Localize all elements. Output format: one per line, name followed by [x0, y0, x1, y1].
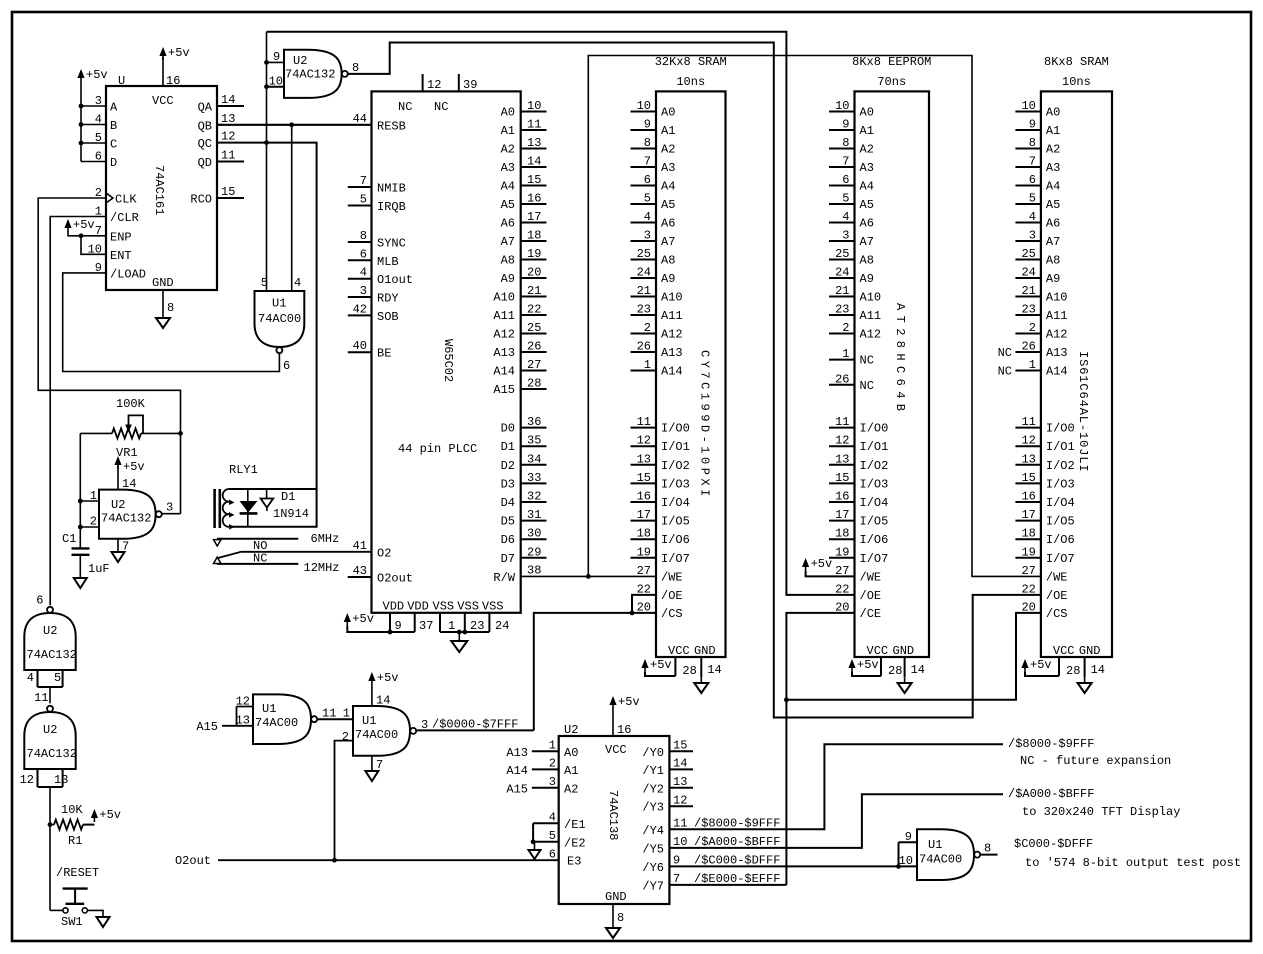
- wire A15 into inverter pins 12 13: [196, 707, 253, 735]
- svg-text:21: 21: [1021, 284, 1035, 298]
- svg-text:GND: GND: [1079, 644, 1101, 658]
- svg-text:VSS: VSS: [457, 600, 479, 614]
- svg-text:11: 11: [221, 149, 235, 163]
- svg-text:C: C: [110, 138, 117, 152]
- wire U1 pin 4 riser from QB: [291, 125, 293, 291]
- svg-text:A15: A15: [493, 383, 515, 397]
- svg-text:6: 6: [283, 359, 290, 373]
- svg-text:A3: A3: [501, 161, 515, 175]
- svg-text:18: 18: [637, 527, 651, 541]
- svg-text:+5v: +5v: [811, 557, 833, 571]
- svg-text:23: 23: [835, 303, 849, 317]
- svg-text:B: B: [110, 119, 117, 133]
- svg-text:/CLR: /CLR: [110, 211, 139, 225]
- ground at decoder GND pin 8: [606, 904, 624, 938]
- svg-text:I/O3: I/O3: [1046, 477, 1075, 491]
- svg-text:10: 10: [1021, 99, 1035, 113]
- wire inverter output 11 to gate pin 1: [317, 707, 353, 721]
- ground at CPU VSS pins 1 23 24: [440, 613, 509, 652]
- svg-text:U1: U1: [272, 297, 286, 311]
- svg-text:R1: R1: [68, 834, 82, 848]
- svg-text:CLK: CLK: [115, 193, 137, 207]
- svg-text:GND: GND: [152, 276, 174, 290]
- svg-text:1uF: 1uF: [88, 562, 110, 576]
- svg-text:I/O0: I/O0: [1046, 422, 1075, 436]
- svg-text:19: 19: [637, 545, 651, 559]
- svg-text:D5: D5: [501, 515, 515, 529]
- svg-text:/OE: /OE: [661, 589, 683, 603]
- svg-text:A2: A2: [564, 782, 578, 796]
- svg-text:5: 5: [842, 192, 849, 206]
- node oscillator output to pot and CLK: [178, 431, 183, 436]
- svg-text:/$E000-$EFFF: /$E000-$EFFF: [694, 872, 780, 886]
- svg-text:5: 5: [1029, 192, 1036, 206]
- svg-text:/$A000-$BFFF: /$A000-$BFFF: [694, 835, 780, 849]
- svg-text:A2: A2: [1046, 143, 1060, 157]
- svg-text:SYNC: SYNC: [377, 237, 406, 251]
- svg-text:+5v: +5v: [168, 46, 190, 60]
- svg-text:12: 12: [637, 434, 651, 448]
- svg-text:R/W: R/W: [493, 571, 515, 585]
- svg-text:VDD: VDD: [383, 600, 405, 614]
- svg-text:A14: A14: [506, 764, 528, 778]
- svg-text:A: A: [110, 101, 118, 115]
- svg-text:A4: A4: [501, 180, 515, 194]
- svg-text:A9: A9: [860, 272, 874, 286]
- svg-text:16: 16: [835, 490, 849, 504]
- svg-text:+5v: +5v: [352, 612, 374, 626]
- svg-text:1: 1: [448, 619, 455, 633]
- svg-text:A14: A14: [1046, 365, 1068, 379]
- svg-text:D4: D4: [501, 496, 515, 510]
- svg-text:QC: QC: [198, 137, 212, 151]
- svg-text:3: 3: [166, 501, 173, 515]
- wire CPU left pin stubs: [348, 187, 372, 577]
- svg-text:24: 24: [495, 619, 509, 633]
- svg-text:A12: A12: [1046, 328, 1068, 342]
- svg-text:NC: NC: [398, 100, 412, 114]
- svg-text:A10: A10: [1046, 291, 1068, 305]
- svg-text:38: 38: [527, 564, 541, 578]
- svg-text:3: 3: [842, 229, 849, 243]
- svg-text:A7: A7: [1046, 235, 1060, 249]
- svg-text:I/O1: I/O1: [661, 440, 690, 454]
- svg-text:6: 6: [842, 173, 849, 187]
- svg-text:A11: A11: [493, 309, 515, 323]
- svg-text:D7: D7: [501, 552, 515, 566]
- svg-text:9: 9: [1029, 118, 1036, 132]
- wire QC net riser to top rail and U1 pin 5: [266, 32, 268, 291]
- svg-text:/Y7: /Y7: [642, 879, 664, 893]
- svg-text:9: 9: [395, 619, 402, 633]
- wire R/W branch over top to SRAM2 /WE pin 27: [588, 56, 1041, 577]
- power +5v at oscillator gate pin 14: [114, 456, 144, 491]
- switch SW1 pushbutton: [50, 889, 88, 929]
- svg-text:24: 24: [637, 266, 651, 280]
- svg-text:1: 1: [343, 707, 350, 721]
- power +5v to CPU VDD pins 9 37: [344, 612, 434, 634]
- wire /Y7 net branch to SRAM2 /CS pin 20: [786, 613, 1041, 700]
- svg-text:18: 18: [835, 527, 849, 541]
- svg-text:14: 14: [707, 663, 721, 677]
- svg-text:9: 9: [842, 118, 849, 132]
- svg-text:+5v: +5v: [618, 695, 640, 709]
- eeprom U 8Kx8 EEPROM AT28HC64B: [829, 55, 931, 693]
- svg-text:12MHz: 12MHz: [304, 561, 340, 575]
- svg-text:/Y3: /Y3: [642, 801, 664, 815]
- svg-text:QD: QD: [198, 156, 212, 170]
- svg-text:9: 9: [644, 118, 651, 132]
- svg-text:8Kx8 SRAM: 8Kx8 SRAM: [1044, 55, 1109, 69]
- svg-text:A6: A6: [1046, 217, 1060, 231]
- nand gate U2 74AC132 top: [269, 50, 348, 98]
- svg-text:/Y6: /Y6: [642, 861, 664, 875]
- svg-text:8: 8: [842, 136, 849, 150]
- svg-text:/E2: /E2: [564, 836, 586, 850]
- svg-text:4: 4: [27, 671, 34, 685]
- svg-text:19: 19: [1021, 545, 1035, 559]
- svg-text:10: 10: [637, 99, 651, 113]
- svg-text:IRQB: IRQB: [377, 200, 406, 214]
- svg-text:23: 23: [1021, 303, 1035, 317]
- svg-text:7: 7: [360, 174, 367, 188]
- svg-text:12: 12: [835, 434, 849, 448]
- svg-text:A9: A9: [1046, 272, 1060, 286]
- svg-text:/CS: /CS: [661, 607, 683, 621]
- svg-text:ENP: ENP: [110, 230, 132, 244]
- svg-text:VCC: VCC: [152, 94, 174, 108]
- svg-text:1N914: 1N914: [273, 507, 309, 521]
- svg-text:/$8000-$9FFF: /$8000-$9FFF: [1008, 737, 1094, 751]
- svg-text:U1: U1: [262, 702, 276, 716]
- svg-text:15: 15: [1021, 471, 1035, 485]
- svg-text:A8: A8: [860, 254, 874, 268]
- svg-text:13: 13: [835, 452, 849, 466]
- svg-text:12: 12: [221, 130, 235, 144]
- svg-text:74AC00: 74AC00: [355, 728, 398, 742]
- wire oscillator feedback node to gate inputs 1 2: [78, 433, 99, 548]
- svg-text:A4: A4: [1046, 180, 1060, 194]
- svg-text:74AC00: 74AC00: [919, 853, 962, 867]
- svg-text:A7: A7: [860, 235, 874, 249]
- svg-text:70ns: 70ns: [877, 75, 906, 89]
- svg-text:+5v: +5v: [857, 658, 879, 672]
- svg-text:A13: A13: [1046, 346, 1068, 360]
- svg-text:D: D: [110, 156, 117, 170]
- svg-text:37: 37: [419, 619, 433, 633]
- svg-text:3: 3: [421, 718, 428, 732]
- wire QC pin 12 to relay coil: [217, 140, 317, 489]
- svg-text:A3: A3: [661, 161, 675, 175]
- svg-text:I/O0: I/O0: [661, 422, 690, 436]
- svg-text:23: 23: [637, 303, 651, 317]
- svg-text:A1: A1: [1046, 124, 1060, 138]
- svg-text:I/O4: I/O4: [1046, 496, 1075, 510]
- svg-text:1: 1: [842, 347, 849, 361]
- net label $C000-$DFFF to '574 8-bit output test post: [1014, 837, 1241, 870]
- svg-text:25: 25: [637, 247, 651, 261]
- svg-text:A7: A7: [501, 235, 515, 249]
- svg-text:A1: A1: [564, 764, 578, 778]
- svg-text:74AC161: 74AC161: [152, 165, 166, 215]
- svg-text:A0: A0: [501, 106, 515, 120]
- svg-text:4: 4: [1029, 210, 1036, 224]
- svg-text:6MHz: 6MHz: [311, 532, 340, 546]
- svg-text:A15: A15: [506, 782, 528, 796]
- svg-text:I/O2: I/O2: [1046, 459, 1075, 473]
- svg-text:/Y4: /Y4: [642, 824, 664, 838]
- svg-text:A13: A13: [493, 346, 515, 360]
- wire decoder /Y5 to net label /$A000-$BFFF: [669, 794, 1003, 849]
- power +5v to EEPROM /WE pin 27: [802, 557, 855, 576]
- relay common armature to CPU O2 pin 41: [216, 552, 372, 559]
- svg-text:BE: BE: [377, 347, 391, 361]
- wire decoder /Y4 to net label /$8000-$9FFF: [669, 744, 1003, 830]
- svg-text:A13: A13: [506, 746, 528, 760]
- svg-text:25: 25: [835, 247, 849, 261]
- svg-text:A13: A13: [661, 346, 683, 360]
- svg-text:U: U: [118, 74, 125, 88]
- svg-text:+5v: +5v: [99, 808, 121, 822]
- svg-text:1: 1: [644, 358, 651, 372]
- svg-text:26: 26: [637, 340, 651, 354]
- nand gate U2 74AC132 oscillator: [90, 489, 173, 539]
- net label /$8000-$9FFF NC - future expansion: [1008, 737, 1171, 768]
- svg-text:D6: D6: [501, 533, 515, 547]
- svg-text:A5: A5: [1046, 198, 1060, 212]
- svg-text:I/O5: I/O5: [1046, 515, 1075, 529]
- svg-text:8: 8: [644, 136, 651, 150]
- svg-text:I/O6: I/O6: [860, 533, 889, 547]
- svg-text:/CS: /CS: [1046, 607, 1068, 621]
- svg-text:U1: U1: [928, 838, 942, 852]
- svg-text:U2: U2: [43, 624, 57, 638]
- power +5v at resistor R1: [91, 808, 121, 822]
- svg-text:22: 22: [835, 582, 849, 596]
- svg-text:I/O2: I/O2: [661, 459, 690, 473]
- wire CPU R/W pin 38 to SRAM1 /WE pin 27: [521, 574, 656, 579]
- wire QA pin 14 stub: [217, 105, 244, 107]
- svg-text:A5: A5: [661, 198, 675, 212]
- nand gate U1 74AC00 A15 inverter: [236, 694, 318, 744]
- svg-text:A1: A1: [501, 124, 515, 138]
- svg-text:RDY: RDY: [377, 292, 399, 306]
- svg-text:19: 19: [835, 545, 849, 559]
- svg-text:16: 16: [166, 74, 180, 88]
- svg-text:18: 18: [1021, 527, 1035, 541]
- svg-text:/E1: /E1: [564, 818, 586, 832]
- svg-text:7: 7: [376, 758, 383, 772]
- wire decoder /Y6 /$C000-$DFFF to gate U1 inputs: [669, 854, 917, 869]
- svg-text:NC - future expansion: NC - future expansion: [1020, 754, 1171, 768]
- svg-text:6: 6: [36, 594, 43, 608]
- svg-text:74AC132: 74AC132: [285, 68, 335, 82]
- svg-text:SW1: SW1: [61, 915, 83, 929]
- svg-text:15: 15: [637, 471, 651, 485]
- svg-text:D3: D3: [501, 477, 515, 491]
- svg-text:11: 11: [322, 707, 336, 721]
- svg-text:NC: NC: [860, 354, 874, 368]
- svg-text:7: 7: [644, 155, 651, 169]
- svg-text:to '574 8-bit output test post: to '574 8-bit output test post: [1025, 856, 1241, 870]
- svg-text:A4: A4: [661, 180, 675, 194]
- net label /$A000-$BFFF to 320x240 TFT Display: [1008, 787, 1180, 819]
- svg-text:42: 42: [353, 302, 367, 316]
- svg-text:U2: U2: [293, 54, 307, 68]
- wire U2 top gate input pins 9 10 tie to QC net: [264, 60, 284, 89]
- svg-text:+5v: +5v: [123, 460, 145, 474]
- wire QB pin 13 to CPU RESB pin 44: [217, 122, 372, 127]
- nand gate U1 74AC00 load decoder: [255, 276, 305, 373]
- svg-text:I/O2: I/O2: [860, 459, 889, 473]
- svg-text:14: 14: [376, 694, 390, 708]
- svg-text:44 pin PLCC: 44 pin PLCC: [398, 442, 477, 456]
- svg-text:NMIB: NMIB: [377, 182, 406, 196]
- svg-text:/$0000-$7FFF: /$0000-$7FFF: [432, 718, 518, 732]
- svg-text:/OE: /OE: [860, 589, 882, 603]
- diode D1 1N914 across relay coil: [240, 489, 309, 527]
- svg-text:24: 24: [835, 266, 849, 280]
- svg-text:A8: A8: [1046, 254, 1060, 268]
- svg-text:D1: D1: [281, 490, 295, 504]
- relay RLY1 coil: [215, 463, 317, 530]
- svg-text:6: 6: [644, 173, 651, 187]
- svg-text:VCC: VCC: [867, 644, 889, 658]
- svg-text:13: 13: [637, 452, 651, 466]
- svg-text:7: 7: [1029, 155, 1036, 169]
- svg-text:D0: D0: [501, 422, 515, 436]
- wire A15 to decoder A2 pin 3: [506, 782, 558, 796]
- svg-text:28: 28: [682, 664, 696, 678]
- svg-text:I/O7: I/O7: [661, 552, 690, 566]
- svg-text:U1: U1: [362, 714, 376, 728]
- power +5v to counter inputs A B C D: [77, 68, 107, 162]
- svg-text:RCO: RCO: [190, 193, 212, 207]
- svg-text:/Y5: /Y5: [642, 842, 664, 856]
- svg-text:3: 3: [1029, 229, 1036, 243]
- svg-text:A9: A9: [501, 272, 515, 286]
- wire QD pin 11 stub: [217, 161, 244, 163]
- svg-text:2: 2: [342, 730, 349, 744]
- svg-text:4: 4: [294, 276, 301, 290]
- wire U1 output pin 8 $C000-$DFFF: [981, 842, 998, 856]
- relay NC contact to 12MHz: [214, 552, 299, 566]
- power +5v to counter ENP ENT pins 7 10: [64, 218, 106, 254]
- nand gate U1 74AC00 RAM select: [342, 706, 416, 756]
- svg-text:/WE: /WE: [661, 570, 683, 584]
- svg-text:15: 15: [835, 471, 849, 485]
- svg-text:74AC138: 74AC138: [606, 790, 620, 840]
- svg-text:U2: U2: [43, 723, 57, 737]
- svg-text:6: 6: [360, 247, 367, 261]
- svg-text:25: 25: [1021, 247, 1035, 261]
- svg-text:A9: A9: [661, 272, 675, 286]
- svg-text:A12: A12: [661, 328, 683, 342]
- svg-text:2: 2: [1029, 321, 1036, 335]
- wire CPU address pin stubs A0-A15: [521, 112, 547, 390]
- svg-text:27: 27: [1021, 564, 1035, 578]
- svg-text:10K: 10K: [61, 803, 83, 817]
- nand gate U2 74AC132 debounce lower: [24, 706, 77, 769]
- svg-text:O2out: O2out: [377, 572, 413, 586]
- svg-text:10ns: 10ns: [676, 75, 705, 89]
- arrow marker inside relay box: [261, 489, 274, 511]
- svg-text:4: 4: [842, 210, 849, 224]
- wire oscillator gate output 3 riser: [162, 513, 181, 515]
- svg-text:O2out: O2out: [175, 854, 211, 868]
- svg-text:4: 4: [644, 210, 651, 224]
- wire CPU top NC pins 12 39: [423, 74, 459, 91]
- resistor R1 10K pullup: [50, 803, 94, 848]
- svg-text:U2: U2: [564, 723, 578, 737]
- svg-text:E3: E3: [567, 855, 581, 869]
- svg-text:17: 17: [835, 508, 849, 522]
- svg-text:11: 11: [1021, 415, 1035, 429]
- svg-text:23: 23: [470, 619, 484, 633]
- svg-text:A10: A10: [661, 291, 683, 305]
- svg-text:26: 26: [1021, 340, 1035, 354]
- svg-text:C1: C1: [62, 532, 76, 546]
- svg-text:QB: QB: [198, 119, 212, 133]
- svg-text:A12: A12: [493, 328, 515, 342]
- svg-text:I/O4: I/O4: [661, 496, 690, 510]
- svg-text:/$C000-$DFFF: /$C000-$DFFF: [694, 854, 780, 868]
- svg-text:16: 16: [617, 723, 631, 737]
- svg-text:10: 10: [835, 99, 849, 113]
- wire counter input bus to pins A B C D: [79, 104, 106, 162]
- svg-text:41: 41: [353, 539, 367, 553]
- svg-text:W65C02: W65C02: [441, 339, 455, 382]
- svg-text:I/O3: I/O3: [860, 477, 889, 491]
- svg-text:A0: A0: [860, 106, 874, 120]
- ground at oscillator gate pin 7: [112, 539, 130, 562]
- svg-text:A3: A3: [1046, 161, 1060, 175]
- svg-text:VSS: VSS: [482, 600, 504, 614]
- power +5v at gate pin 14: [368, 671, 398, 708]
- svg-text:21: 21: [637, 284, 651, 298]
- svg-text:5: 5: [261, 276, 268, 290]
- svg-text:A14: A14: [493, 365, 515, 379]
- svg-text:74AC00: 74AC00: [255, 716, 298, 730]
- svg-text:/WE: /WE: [860, 570, 882, 584]
- svg-text:D1: D1: [501, 440, 515, 454]
- svg-text:RLY1: RLY1: [229, 463, 258, 477]
- ground at gate pin 7: [365, 756, 383, 781]
- wire EEPROM /CE pin 20 from decoder /Y7 net: [784, 613, 855, 885]
- svg-text:A2: A2: [860, 143, 874, 157]
- svg-text:5: 5: [644, 192, 651, 206]
- svg-text:/LOAD: /LOAD: [110, 267, 146, 281]
- capacitor C1 1uF: [62, 532, 110, 578]
- svg-text:8: 8: [1029, 136, 1036, 150]
- wire counter /CLR pin 1 from debounce gate output 6: [50, 217, 106, 606]
- svg-text:/RESET: /RESET: [56, 866, 99, 880]
- svg-text:24: 24: [1021, 266, 1035, 280]
- svg-text:I/O5: I/O5: [860, 515, 889, 529]
- svg-text:A5: A5: [860, 198, 874, 212]
- svg-text:AT28HC64B: AT28HC64B: [893, 303, 907, 416]
- svg-text:VCC: VCC: [1053, 644, 1075, 658]
- svg-text:4: 4: [360, 266, 367, 280]
- wire RCO pin 15 stub: [217, 197, 244, 199]
- svg-text:I/O7: I/O7: [1046, 552, 1075, 566]
- svg-text:5: 5: [360, 193, 367, 207]
- svg-text:VCC: VCC: [668, 644, 690, 658]
- svg-text:IS61C64AL-10JLI: IS61C64AL-10JLI: [1076, 351, 1090, 473]
- svg-text:14: 14: [911, 663, 925, 677]
- svg-text:I/O6: I/O6: [661, 533, 690, 547]
- svg-text:A4: A4: [860, 180, 874, 194]
